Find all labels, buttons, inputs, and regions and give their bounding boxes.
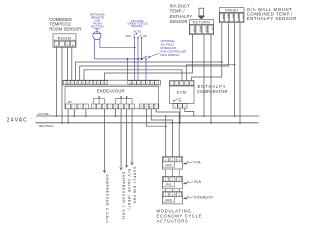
- wire push button to fault interlock contact: [94, 58, 140, 60]
- junction fresh/active: [234, 115, 236, 117]
- controller top terminal strip: [63, 80, 161, 85]
- duct probe symbol: [197, 8, 205, 19]
- junction pb lead / switch wire: [134, 47, 136, 49]
- wire terminal ~ to NEUTRAL: [67, 109, 69, 123]
- wire FRESH t2 jog to controller: [80, 23, 229, 81]
- svg-text:NEUTRAL: NEUTRAL: [39, 124, 54, 128]
- arrow compressor 2: [103, 170, 106, 172]
- wire output compressor 2: [104, 109, 106, 172]
- svg-text:24VAC: 24VAC: [7, 118, 28, 124]
- svg-text:R/A: R/A: [194, 179, 201, 184]
- svg-text:ENTH: ENTH: [205, 26, 207, 32]
- svg-text:T: T: [67, 43, 69, 47]
- NEUTRAL rail: [36, 123, 259, 128]
- wire room sensor C to controller input: [71, 47, 73, 80]
- wire FRESH t1 jog to ECM input 5: [192, 23, 222, 81]
- A/C fault interlock contact (N.O.): [141, 56, 147, 60]
- svg-text:INFO DISPLAY: INFO DISPLAY: [161, 53, 180, 57]
- wire links block2 to block3: [166, 189, 180, 192]
- svg-text:ENTHALPY SENSOR: ENTHALPY SENSOR: [247, 16, 297, 21]
- junction on interlock line 2: [137, 58, 139, 60]
- arrow R/V valve: [125, 165, 128, 167]
- wire RETURN t2 to ACTIVE rail: [203, 35, 205, 117]
- controller bottom terminals group aux: [78, 104, 89, 109]
- svg-text:(SHOWN): (SHOWN): [131, 24, 143, 28]
- svg-text:SUPPLY AIR FAN: SUPPLY AIR FAN: [132, 167, 136, 204]
- toggle switch S1 : AUTO / OFF / ON: [126, 29, 148, 38]
- wire push button left lead down: [93, 39, 95, 59]
- wire ECM t3 jog right: [185, 108, 194, 116]
- label ENTHALPY COMPARATOR: [197, 84, 228, 94]
- wire output R/V valve: [126, 109, 128, 167]
- svg-text:SENSOR: SENSOR: [170, 19, 188, 24]
- svg-text:TEMP. /: TEMP. /: [170, 9, 186, 14]
- controller main box ENDEAVOUR: [65, 87, 159, 109]
- relay contact group 2: [116, 96, 133, 104]
- junction common/neutral: [172, 122, 174, 124]
- wire room sensor T to controller input: [67, 47, 69, 80]
- ACTIVE rail: [36, 112, 259, 116]
- actuator block F/A: [162, 157, 182, 169]
- svg-text:ACTUATORS: ACTUATORS: [157, 218, 189, 223]
- svg-text:GRN3: GRN3: [165, 199, 172, 202]
- svg-text:RETURN: RETURN: [193, 21, 210, 25]
- junction fresh/neutral: [239, 122, 241, 124]
- svg-text:ACTIVE: ACTIVE: [38, 112, 49, 116]
- junction pole3 / line: [141, 58, 143, 60]
- label: COMBINED TEMP/CO2 ROOM SENSOR: [49, 17, 81, 31]
- push button PB1 symbol: [93, 29, 101, 40]
- svg-text:ENDEAVOUR: ENDEAVOUR: [97, 88, 125, 93]
- junction: [179, 122, 181, 124]
- svg-text:ENT: ENT: [232, 14, 234, 19]
- junction hot/active: [165, 115, 167, 117]
- svg-text:FRESH: FRESH: [225, 9, 238, 13]
- wire ECM input jog from fresh t3: [186, 65, 234, 81]
- wire terminal + to ACTIVE: [73, 109, 75, 116]
- junction jog/hot: [165, 125, 167, 127]
- arrow compressor 1: [120, 167, 123, 169]
- svg-text:24V: 24V: [236, 14, 238, 18]
- svg-text:R/V VALVE (HEAT): R/V VALVE (HEAT): [127, 169, 131, 210]
- svg-text:+: +: [56, 43, 58, 47]
- ECM top terminal strip: [170, 81, 195, 86]
- wire links block1 to block2: [166, 169, 180, 176]
- controller bottom terminals group ~ +: [66, 104, 77, 109]
- junction: [115, 115, 117, 117]
- svg-text:ECM: ECM: [177, 89, 187, 94]
- outside air sensor terminal block FRESH: [219, 8, 244, 23]
- wire branch down to controller input: [127, 59, 129, 80]
- label: R/A DUCT TEMP./ENTHALPY SENSOR: [170, 3, 193, 24]
- wire output supply air fan: [131, 109, 133, 165]
- junction return/active: [203, 115, 205, 117]
- arrow from note to contact: [147, 53, 159, 58]
- svg-text:COM: COM: [241, 14, 243, 19]
- svg-text:EXHAUST: EXHAUST: [194, 194, 214, 199]
- junction return/neutral: [210, 122, 212, 124]
- junction: [73, 115, 75, 117]
- svg-text:SHLD: SHLD: [198, 26, 200, 32]
- wire contact to controller input: [145, 60, 147, 81]
- wire room sensor - to NEUTRAL rail: [61, 47, 63, 122]
- ECM internal contact: [173, 98, 181, 101]
- label MODULATING ECONOMY CYCLE ACTUATORS: [157, 209, 203, 224]
- junction: [85, 115, 87, 117]
- svg-text:-: -: [62, 43, 63, 47]
- return air sensor terminal block RETURN: [189, 20, 213, 35]
- wire FRESH t4 to NEUTRAL rail: [239, 23, 241, 123]
- controller bottom terminals M F E 2: [139, 104, 158, 109]
- label: O/A WALL MOUNT COMBINED TEMP./ENTHALPY SENSOR: [247, 7, 297, 21]
- wire actuator feed E jog: [151, 109, 172, 157]
- svg-text:ROOM: ROOM: [58, 36, 71, 40]
- svg-text:ON: ON: [143, 34, 147, 38]
- wire actuator feed 2 signal: [156, 109, 179, 157]
- svg-text:24V: 24V: [211, 26, 213, 31]
- junction jog/fresh t3: [234, 64, 236, 66]
- wire switch pole 3 down to interlock line: [141, 38, 143, 59]
- controller bottom terminals 1-8: [91, 104, 134, 109]
- svg-text:M: M: [141, 107, 143, 109]
- label: OPTIONAL O/RIDE TOGGLE SWITCH (blue): [127, 19, 148, 28]
- wire push button right lead to switch common: [100, 39, 135, 48]
- svg-text:AUTO: AUTO: [134, 29, 143, 33]
- junction: [67, 122, 69, 124]
- svg-text:BUTTON: BUTTON: [91, 24, 103, 28]
- svg-text:GRN2: GRN2: [165, 184, 172, 187]
- svg-text:GRN1: GRN1: [165, 164, 172, 167]
- wire room sensor + to ACTIVE rail: [56, 47, 58, 116]
- wire actuator feed F jog: [146, 109, 165, 126]
- wire aux terminal to ACTIVE: [85, 109, 87, 116]
- junction fresh t1 / jog: [221, 61, 223, 63]
- wire switch pole 1 down to controller: [134, 38, 136, 80]
- svg-text:F/A: F/A: [194, 159, 201, 164]
- wire switch pole 2 down to controller: [137, 38, 139, 80]
- wire jog to controller from fresh t1: [76, 62, 222, 80]
- wire terminal 5 to ACTIVE: [115, 109, 117, 116]
- svg-text:24V: 24V: [68, 101, 73, 104]
- room sensor terminal block ROOM: [53, 34, 76, 48]
- svg-text:R/A DUCT: R/A DUCT: [170, 3, 190, 8]
- wire RETURN t1 to controller via jog: [105, 35, 193, 81]
- wire actuator 24V hot from ACTIVE: [165, 116, 167, 157]
- junction room+ / active: [56, 115, 58, 117]
- svg-text:TEMP: TEMP: [192, 26, 194, 33]
- svg-text:TEM: TEM: [222, 14, 224, 19]
- actuator block R/A: [162, 176, 182, 188]
- label: OPTIONAL REMOTE O/RIDE PUSH BUTTON (blue): [90, 12, 106, 28]
- wire ECM input jog 2: [84, 70, 182, 81]
- arrow supply air fan: [131, 162, 134, 164]
- junction room- / neutral: [61, 122, 63, 124]
- actuator block EXHAUST: [162, 192, 182, 204]
- svg-text:COMPARATOR: COMPARATOR: [197, 89, 228, 94]
- svg-text:COMPRESSOR 2 CALL: COMPRESSOR 2 CALL: [105, 175, 109, 224]
- relay contact group 1: [94, 96, 105, 104]
- junction on interlock line: [127, 58, 129, 60]
- svg-text:COMPRESSOR 1 CALL: COMPRESSOR 1 CALL: [121, 172, 125, 221]
- wire FRESH t3 to ACTIVE rail: [234, 23, 236, 116]
- wire ECM t2 to NEUTRAL: [179, 108, 181, 123]
- wire RETURN t3 to NEUTRAL rail: [210, 35, 212, 123]
- svg-text:ROOM SENSOR: ROOM SENSOR: [49, 26, 81, 31]
- ECM box: [170, 86, 195, 104]
- ECM bottom terminals 1 2 3: [173, 104, 187, 109]
- note: OPTIONAL A/C FAULT INTERLOCK FOR CONTROLLER INFO DISPLAY: [161, 39, 187, 57]
- svg-text:OFF: OFF: [126, 34, 132, 38]
- svg-text:M: M: [129, 83, 131, 85]
- wire output compressor 1: [120, 109, 122, 170]
